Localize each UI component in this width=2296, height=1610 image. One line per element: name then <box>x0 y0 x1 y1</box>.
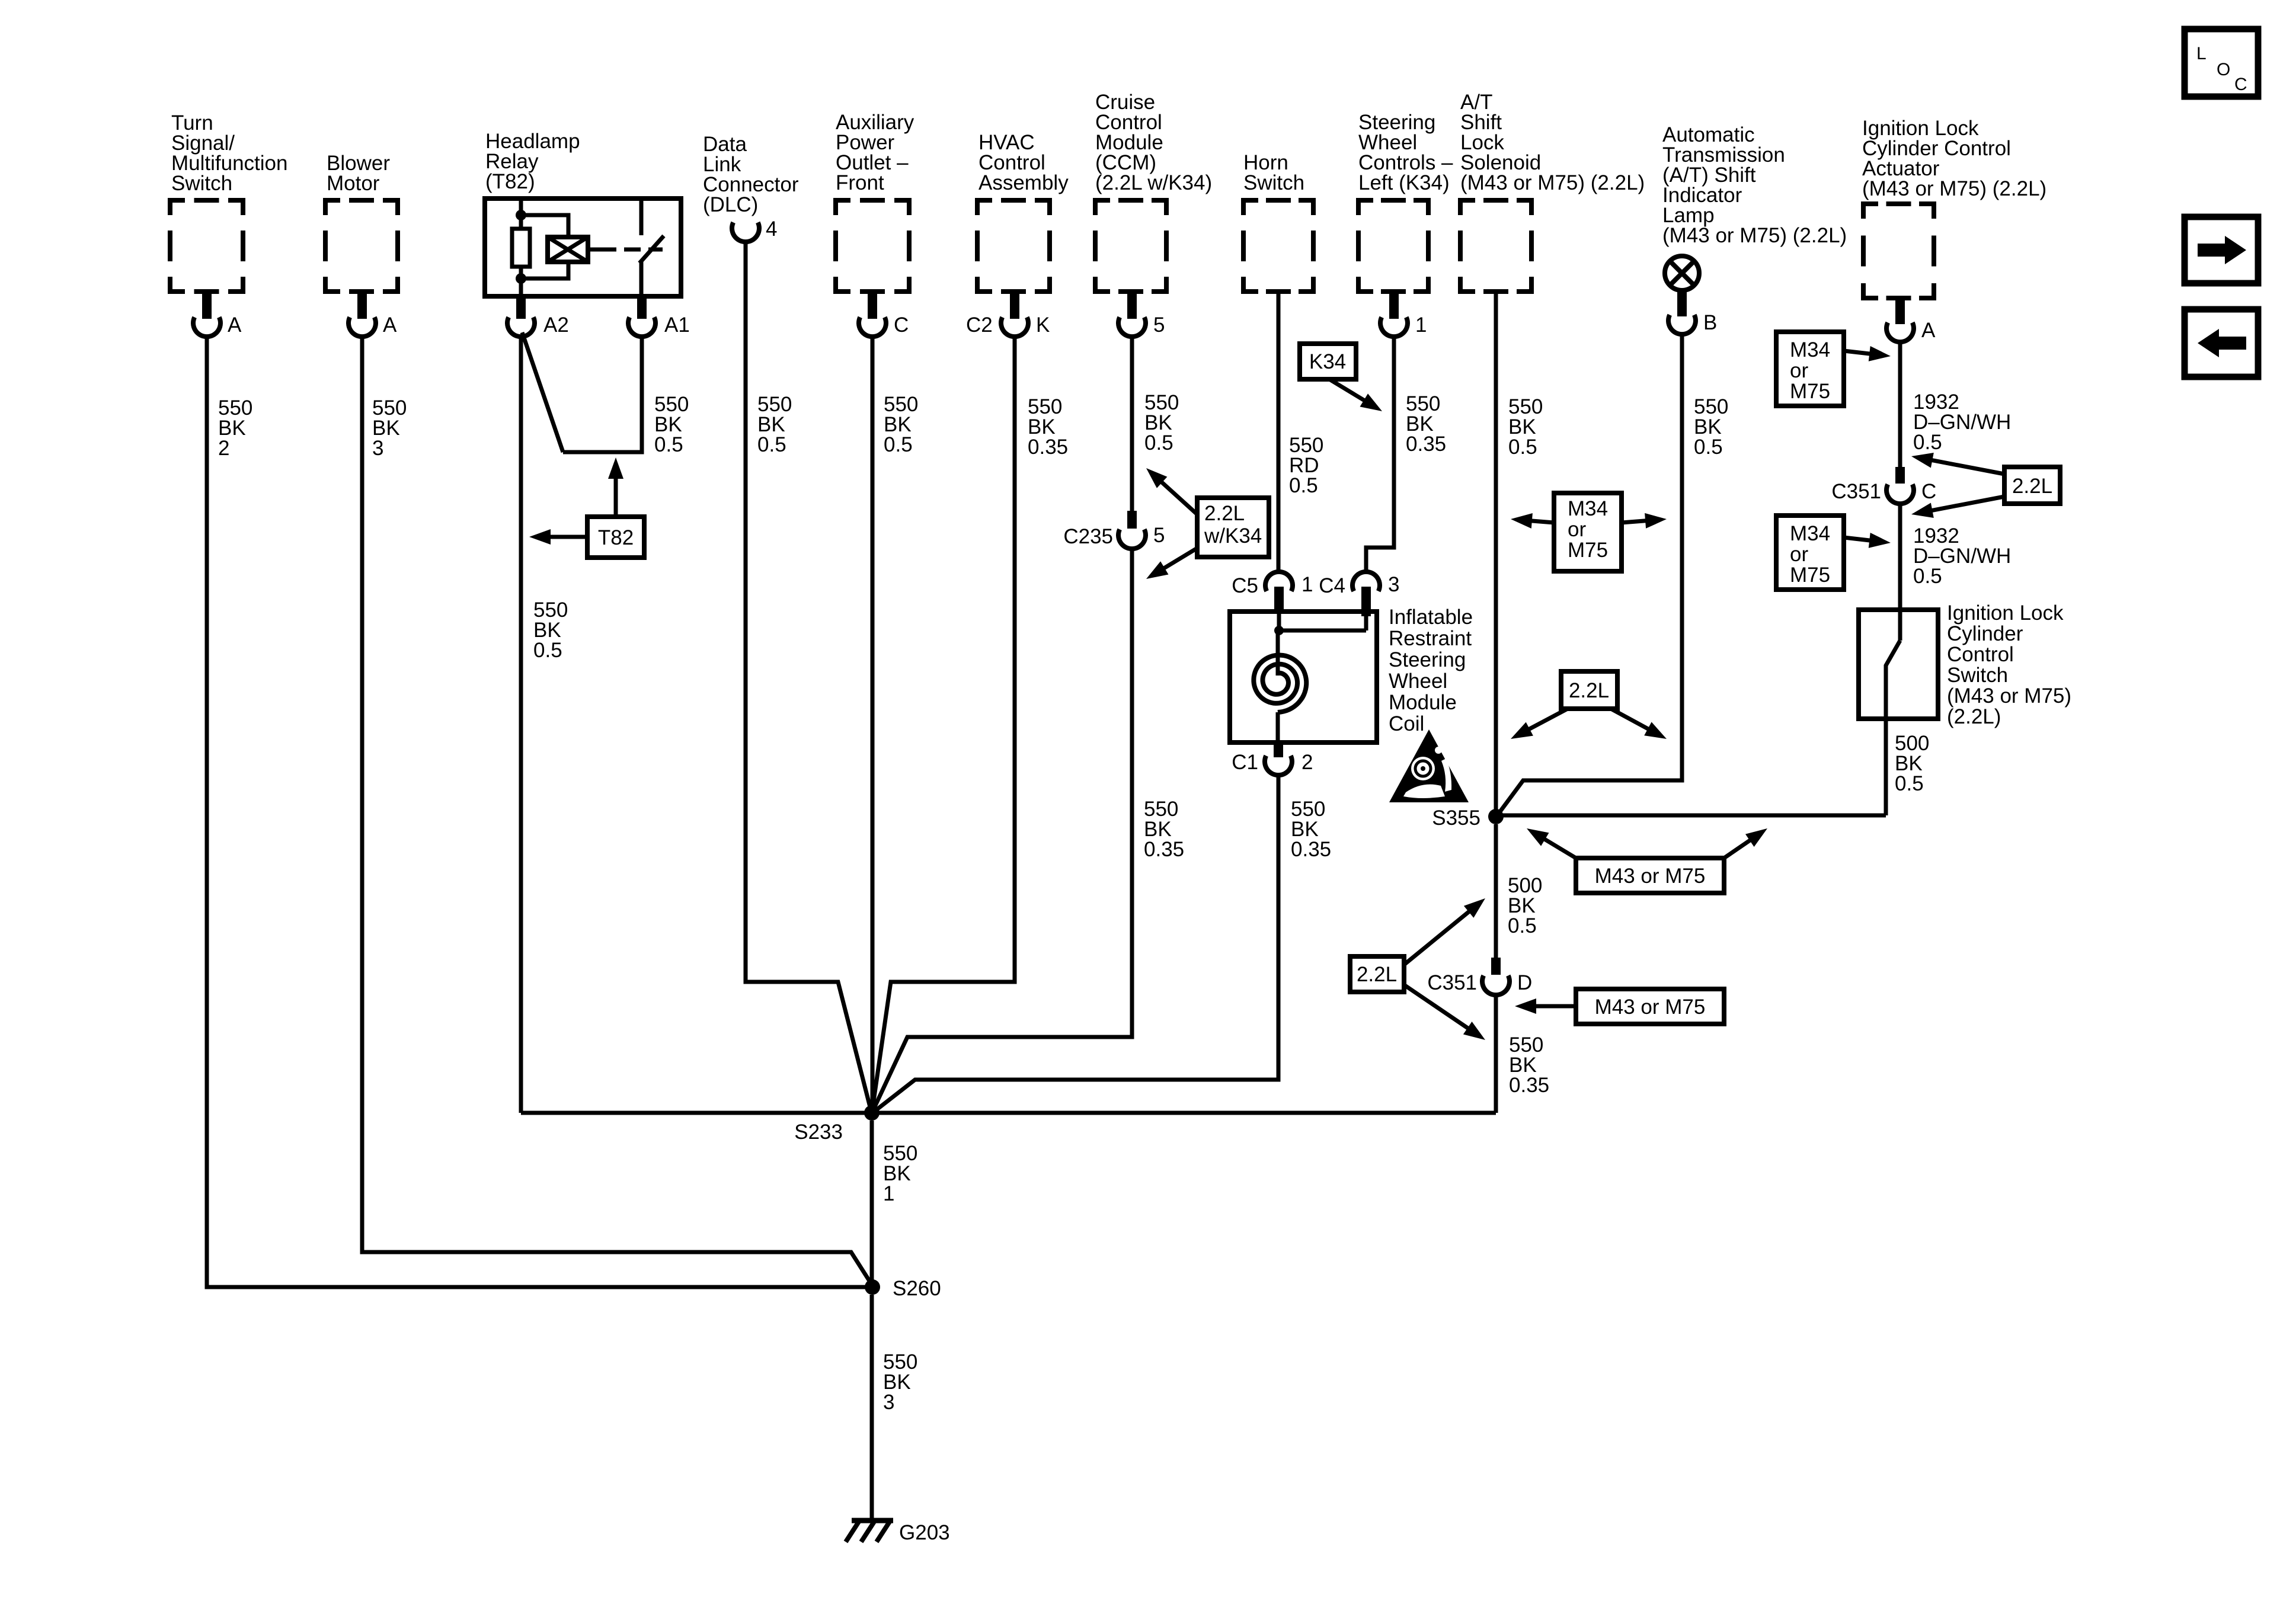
arrow from K34 box to steering wire <box>1329 379 1382 411</box>
arrow from T82 box to A2 wire <box>529 529 587 545</box>
svg-text:C: C <box>894 313 909 337</box>
svg-text:0.5: 0.5 <box>1289 474 1318 497</box>
relay internal wire left <box>519 201 523 294</box>
svg-text:1: 1 <box>1302 573 1313 596</box>
wire: relay A2 down to S233 (550 BK 0.5) <box>519 335 523 1113</box>
svg-text:Assembly: Assembly <box>978 171 1069 194</box>
svg-text:3: 3 <box>372 437 383 460</box>
pin 5 (CCM) <box>1118 292 1165 337</box>
connector box: HVAC Control Assembly <box>977 200 1050 292</box>
left-arrow legend box <box>2185 309 2258 377</box>
svg-text:2.2L: 2.2L <box>1357 963 1397 986</box>
connector box: Auxiliary Power Outlet <box>836 200 909 292</box>
wire label 550 BK 2 <box>218 396 252 460</box>
svg-text:Restraint: Restraint <box>1389 627 1472 650</box>
component label: A/T Shift Lock Solenoid (M43 or M75) (2.2L) <box>1460 91 1645 194</box>
connector box: Blower Motor <box>325 200 398 292</box>
svg-text:A: A <box>1921 319 1936 342</box>
svg-text:C2: C2 <box>966 313 993 337</box>
wire: S355 to C351 D (500 BK 0.5) <box>1494 824 1498 959</box>
arrow from 2.2L box to wire above C351 D <box>1404 898 1485 965</box>
svg-text:0.5: 0.5 <box>884 433 913 456</box>
arrow from 2.2L box to solenoid wire <box>1511 709 1568 739</box>
svg-text:0.5: 0.5 <box>1913 565 1942 588</box>
svg-text:L: L <box>2196 44 2207 63</box>
pin 4 (DLC) <box>732 217 777 242</box>
pin A (ignition actuator) <box>1886 298 1936 342</box>
wire label 550 BK 0.5 (aux outlet) <box>884 393 918 456</box>
wire: relay A1 joins A2 node <box>522 332 642 452</box>
svg-text:4: 4 <box>766 217 777 241</box>
wire: A/T Shift Lock Solenoid to S355 (550 BK 0.5) <box>1494 292 1498 817</box>
pin C4 3 (coil) <box>1319 572 1399 616</box>
svg-text:5: 5 <box>1153 313 1165 337</box>
connector box: Horn Switch <box>1243 200 1313 292</box>
svg-text:C1: C1 <box>1232 751 1258 774</box>
svg-text:0.35: 0.35 <box>1406 433 1446 456</box>
svg-text:O: O <box>2217 60 2230 79</box>
svg-text:0.5: 0.5 <box>533 639 562 662</box>
ground symbol G203 <box>846 1521 950 1544</box>
arrow from 2.2L box to lamp wire <box>1611 709 1667 739</box>
component label: HVAC Control Assembly <box>978 131 1069 194</box>
svg-text:2: 2 <box>1302 751 1313 774</box>
bus wire into S233 (main horizontal) <box>521 1111 1496 1115</box>
svg-text:5: 5 <box>1153 524 1165 547</box>
svg-text:0.5: 0.5 <box>1895 772 1924 795</box>
svg-text:Steering: Steering <box>1389 648 1466 671</box>
svg-text:w/K34: w/K34 <box>1204 524 1262 548</box>
coil internal junction <box>1274 612 1366 635</box>
svg-text:C5: C5 <box>1232 574 1258 597</box>
arrow from M34 or M75 box to lamp wire <box>1622 513 1667 529</box>
svg-text:A: A <box>383 313 397 337</box>
svg-text:D: D <box>1517 971 1532 994</box>
M43 or M75 reference box (lower) <box>1576 989 1724 1024</box>
connector box: Cruise Control Module <box>1095 200 1166 292</box>
wire label 550 BK 0.5 (A1) <box>654 393 689 456</box>
arrow from M34 or M75 box to solenoid wire <box>1511 513 1554 529</box>
svg-text:(M43 or M75) (2.2L): (M43 or M75) (2.2L) <box>1662 224 1847 247</box>
svg-text:0.35: 0.35 <box>1291 838 1331 861</box>
svg-text:(M43 or M75): (M43 or M75) <box>1947 684 2071 708</box>
wire: C351 D to S233 (550 BK 0.35) <box>1494 994 1498 1113</box>
svg-text:0.35: 0.35 <box>1144 838 1184 861</box>
relay switch contact <box>639 201 664 294</box>
svg-text:0.5: 0.5 <box>654 433 683 456</box>
clockspring spiral (coil) <box>1253 630 1306 742</box>
connector C235 pin 5 <box>1063 511 1165 549</box>
svg-text:M43 or M75: M43 or M75 <box>1595 996 1706 1019</box>
component label: Ignition Lock Cylinder Control Actuator (M43 or M75) (2.2L) <box>1862 117 2046 200</box>
svg-text:Motor: Motor <box>327 172 380 195</box>
M34 or M75 reference box (left of lamp wire) <box>1554 493 1622 571</box>
connector C351 pin C <box>1831 467 1936 504</box>
svg-text:C351: C351 <box>1427 971 1477 994</box>
ignition lock cylinder control switch box <box>1859 610 1938 719</box>
svg-text:2.2L: 2.2L <box>1569 679 1609 702</box>
wire: S260 to G203 (550 BK 3) <box>870 1295 874 1521</box>
splice S355 <box>1432 806 1504 830</box>
svg-text:0.5: 0.5 <box>1144 431 1173 454</box>
arrow from 2.2L w/K34 box to wire below C235 <box>1146 548 1197 579</box>
svg-text:or: or <box>1790 543 1808 566</box>
svg-text:C4: C4 <box>1319 574 1345 597</box>
wire: S233 to S260 (550 BK 1) <box>870 1121 874 1287</box>
svg-text:1: 1 <box>883 1182 894 1205</box>
component label: Automatic Transmission (A/T) Shift Indicator Lamp (M43 or M75) (2.2L) <box>1662 123 1847 247</box>
relay coil (box with X) <box>548 237 588 262</box>
pin A (Turn Signal/Multifunction Switch) <box>193 292 242 337</box>
M43 or M75 reference box (upper) <box>1576 858 1724 893</box>
arrow from 2.2L box to wire above C351 C <box>1911 453 2004 474</box>
pin A (Blower Motor) <box>348 292 397 337</box>
wire label 550 BK 3 (ground leg) <box>883 1350 917 1414</box>
LOC legend box <box>2185 29 2258 97</box>
svg-text:0.35: 0.35 <box>1028 436 1068 459</box>
svg-text:0.5: 0.5 <box>757 433 786 456</box>
svg-text:Module: Module <box>1389 691 1457 714</box>
relay internal branch wires <box>521 215 568 279</box>
svg-text:0.5: 0.5 <box>1913 431 1942 454</box>
svg-text:C: C <box>1921 480 1936 503</box>
svg-text:2.2L: 2.2L <box>1204 502 1245 525</box>
svg-text:3: 3 <box>1388 573 1399 596</box>
svg-text:Switch: Switch <box>1243 171 1304 194</box>
wire: actuator pin A to C351 C (1932 D-GN/WH 0.5) <box>1898 341 1902 468</box>
svg-text:M34: M34 <box>1790 338 1830 361</box>
pin A1 (Headlamp Relay) <box>628 296 690 337</box>
wire label 550 BK 0.5 (DLC) <box>757 393 792 456</box>
wire: C351 C to ignition switch (1932 D-GN/WH 0.5) <box>1898 502 1902 641</box>
component label: Auxiliary Power Outlet - Front <box>836 111 914 194</box>
svg-text:(2.2L): (2.2L) <box>1947 705 2001 728</box>
svg-text:Wheel: Wheel <box>1389 670 1447 693</box>
arrow from 2.2L w/K34 box to wire above C235 <box>1146 468 1197 514</box>
M34 or M75 reference box (mid right) <box>1776 516 1844 590</box>
svg-text:(T82): (T82) <box>485 170 535 193</box>
wire label 550 BK 0.35 (C351 D) <box>1509 1033 1549 1097</box>
svg-text:2: 2 <box>218 437 229 460</box>
splice S233 <box>794 1105 880 1144</box>
wire: HVAC K to S233 (550 BK 0.35) <box>872 335 1015 1109</box>
wire label 500 BK 0.5 (above C351 D) <box>1508 874 1542 937</box>
svg-text:or: or <box>1568 518 1586 541</box>
M34 or M75 reference box (upper right) <box>1776 332 1844 406</box>
pin C (Auxiliary Power Outlet) <box>859 292 909 337</box>
svg-text:Cylinder: Cylinder <box>1947 622 2023 645</box>
svg-text:0.5: 0.5 <box>1508 914 1537 937</box>
svg-text:Front: Front <box>836 171 884 194</box>
svg-text:M43 or M75: M43 or M75 <box>1595 865 1706 888</box>
svg-text:Coil: Coil <box>1389 712 1424 735</box>
connector box: A/T Shift Lock Solenoid <box>1460 200 1531 292</box>
wire: C235 to S233 (550 BK 0.35) <box>873 548 1132 1110</box>
connector box: Steering Wheel Controls <box>1358 200 1428 292</box>
2.2L reference box (right) <box>2004 467 2060 504</box>
svg-text:T82: T82 <box>598 526 634 549</box>
coil module box: Inflatable Restraint Steering Wheel Module Coil <box>1230 612 1377 742</box>
connector box: Ignition Lock Cylinder Control Actuator <box>1863 204 1934 298</box>
wire label 1932 D-GN/WH 0.5 (lower) <box>1913 524 2011 588</box>
svg-text:Inflatable: Inflatable <box>1389 606 1473 629</box>
svg-text:B: B <box>1703 311 1717 334</box>
component label: Ignition Lock Cylinder Control Switch (M43 or M75) (2.2L) <box>1947 601 2071 728</box>
svg-text:S260: S260 <box>893 1277 941 1300</box>
svg-text:S233: S233 <box>794 1121 843 1144</box>
component label: Blower Motor <box>327 152 390 195</box>
svg-text:(M43 or M75) (2.2L): (M43 or M75) (2.2L) <box>1460 171 1645 194</box>
svg-text:S355: S355 <box>1432 806 1480 830</box>
arrow from M34 or M75 box (mid) to actuator wire <box>1844 533 1891 548</box>
arrow from M43 or M75 box to 500 BK wire <box>1724 828 1767 858</box>
wire: Aux Power Outlet pin C to S233 (550 BK 0.5) <box>871 335 875 1113</box>
wire label 550 BK 0.5 (lamp) <box>1694 395 1728 459</box>
connector box: Turn Signal/Multifunction Switch <box>170 200 243 292</box>
svg-text:A1: A1 <box>664 313 690 337</box>
wire label 550 BK 0.35 (coil C1) <box>1291 798 1331 861</box>
relay coil to contact dashed link <box>588 248 663 252</box>
wire label 550 BK 1 <box>883 1142 917 1205</box>
component label: Steering Wheel Controls - Left (K34) <box>1358 111 1453 194</box>
svg-text:Control: Control <box>1947 643 2014 666</box>
wire: coil C1 to S233 (550 BK 0.35) <box>875 774 1278 1111</box>
connector C351 pin D <box>1427 958 1532 995</box>
right-arrow legend box <box>2185 217 2258 283</box>
wire label 1932 D-GN/WH 0.5 (upper) <box>1913 391 2011 454</box>
pin 1 (Steering Wheel Controls) <box>1380 292 1427 337</box>
wire: lamp pin B to S355 (550 BK 0.5) <box>1498 333 1682 815</box>
svg-text:A: A <box>228 313 242 337</box>
wire: CCM pin 5 to C235 (550 BK 0.5) <box>1130 335 1134 513</box>
svg-text:3: 3 <box>883 1391 894 1414</box>
svg-text:C: C <box>2234 75 2247 94</box>
svg-text:0.35: 0.35 <box>1509 1074 1549 1097</box>
switch contact (ignition lock cylinder control switch) <box>1886 641 1900 815</box>
svg-text:M75: M75 <box>1568 539 1608 562</box>
wire label 550 RD 0.5 <box>1289 434 1323 497</box>
svg-text:M34: M34 <box>1568 497 1608 520</box>
wire: Blower Motor pin A to S260 (550 BK 3) <box>362 335 872 1285</box>
arrow from M43 or M75 box to wire below C351 D <box>1515 998 1576 1014</box>
svg-text:2.2L: 2.2L <box>2012 475 2052 498</box>
component label: Turn Signal/Multifunction Switch <box>171 111 287 195</box>
arrow from 2.2L box to wire below C351 C <box>1911 497 2004 518</box>
svg-text:Ignition Lock: Ignition Lock <box>1947 601 2064 625</box>
svg-text:M75: M75 <box>1790 564 1830 587</box>
wire: Turn Signal pin A to S260 (550 BK 2) <box>207 335 869 1287</box>
wire label 550 BK 0.5 (solenoid) <box>1508 395 1543 459</box>
arrow from 2.2L box to wire below C351 D <box>1404 985 1485 1040</box>
wire: ignition switch to S355 (500 BK 0.5) <box>1496 814 1886 818</box>
svg-text:(2.2L w/K34): (2.2L w/K34) <box>1095 171 1212 194</box>
relay internal node dots <box>516 210 526 284</box>
indicator lamp symbol <box>1665 256 1699 290</box>
wire: Horn Switch to coil C5 (550 RD 0.5) <box>1277 292 1281 572</box>
splice S260 <box>865 1277 941 1300</box>
svg-text:A2: A2 <box>543 313 569 337</box>
SRS caution triangle <box>1389 729 1469 802</box>
wire label 500 BK 0.5 (below switch) <box>1895 732 1929 795</box>
svg-text:M34: M34 <box>1790 522 1830 545</box>
2.2L w/K34 reference box <box>1197 498 1269 557</box>
svg-text:0.5: 0.5 <box>1508 436 1537 459</box>
svg-text:K34: K34 <box>1309 350 1346 373</box>
arrow from M34 or M75 box to actuator wire <box>1844 346 1891 361</box>
svg-text:or: or <box>1790 359 1808 382</box>
svg-text:(DLC): (DLC) <box>703 193 758 216</box>
svg-text:G203: G203 <box>899 1521 950 1544</box>
svg-text:C351: C351 <box>1831 480 1881 503</box>
component label: Headlamp Relay (T82) <box>485 130 580 193</box>
component label: Data Link Connector (DLC) <box>703 133 799 216</box>
relay K box: Headlamp Relay <box>485 199 681 296</box>
component label: Cruise Control Module (CCM) (2.2L w/K34) <box>1095 91 1212 194</box>
svg-text:1: 1 <box>1415 313 1427 337</box>
arrow from M43 or M75 box to wire below S355 <box>1527 828 1576 858</box>
wire label 550 BK 0.35 (CCM lower) <box>1144 798 1184 861</box>
svg-text:Switch: Switch <box>1947 664 2008 687</box>
2.2L reference box (left of C351 D) <box>1350 956 1404 992</box>
svg-text:C235: C235 <box>1063 525 1113 548</box>
pin C2 K (HVAC Control Assembly) <box>966 292 1050 337</box>
pin C1 2 (coil) <box>1232 742 1313 775</box>
svg-text:M75: M75 <box>1790 380 1830 403</box>
2.2L reference box (above S355) <box>1561 671 1617 709</box>
component label: Horn Switch <box>1243 151 1304 194</box>
pin A2 (Headlamp Relay) <box>507 296 569 337</box>
wire: DLC pin 4 to S233 (550 BK 0.5) <box>746 241 871 1109</box>
wire: Steering Wheel Controls pin 1 to coil C4 (550 BK 0.35) <box>1366 335 1394 572</box>
svg-text:Left (K34): Left (K34) <box>1358 171 1450 194</box>
wire label 550 BK 0.5 (A2) <box>533 598 568 662</box>
svg-text:0.5: 0.5 <box>1694 436 1723 459</box>
T82 reference box <box>587 517 644 558</box>
wire label 550 BK 3 (blower) <box>372 396 407 460</box>
svg-text:(M43 or M75) (2.2L): (M43 or M75) (2.2L) <box>1862 177 2046 200</box>
wire label 550 BK 0.5 (CCM upper) <box>1144 391 1179 454</box>
resistor (relay internal) <box>512 229 530 267</box>
svg-text:K: K <box>1036 313 1050 337</box>
arrow from T82 box to A1-A2 wire <box>608 457 623 517</box>
pin B (indicator lamp) <box>1668 292 1717 334</box>
wire label 550 BK 0.35 (HVAC) <box>1028 395 1068 459</box>
wire label 550 BK 0.35 (steering) <box>1406 392 1446 456</box>
component label: Inflatable Restraint Steering Wheel Module Coil <box>1389 606 1473 735</box>
K34 reference box <box>1300 344 1356 379</box>
svg-text:Switch: Switch <box>171 172 232 195</box>
pin C5 1 (coil) <box>1232 572 1313 612</box>
